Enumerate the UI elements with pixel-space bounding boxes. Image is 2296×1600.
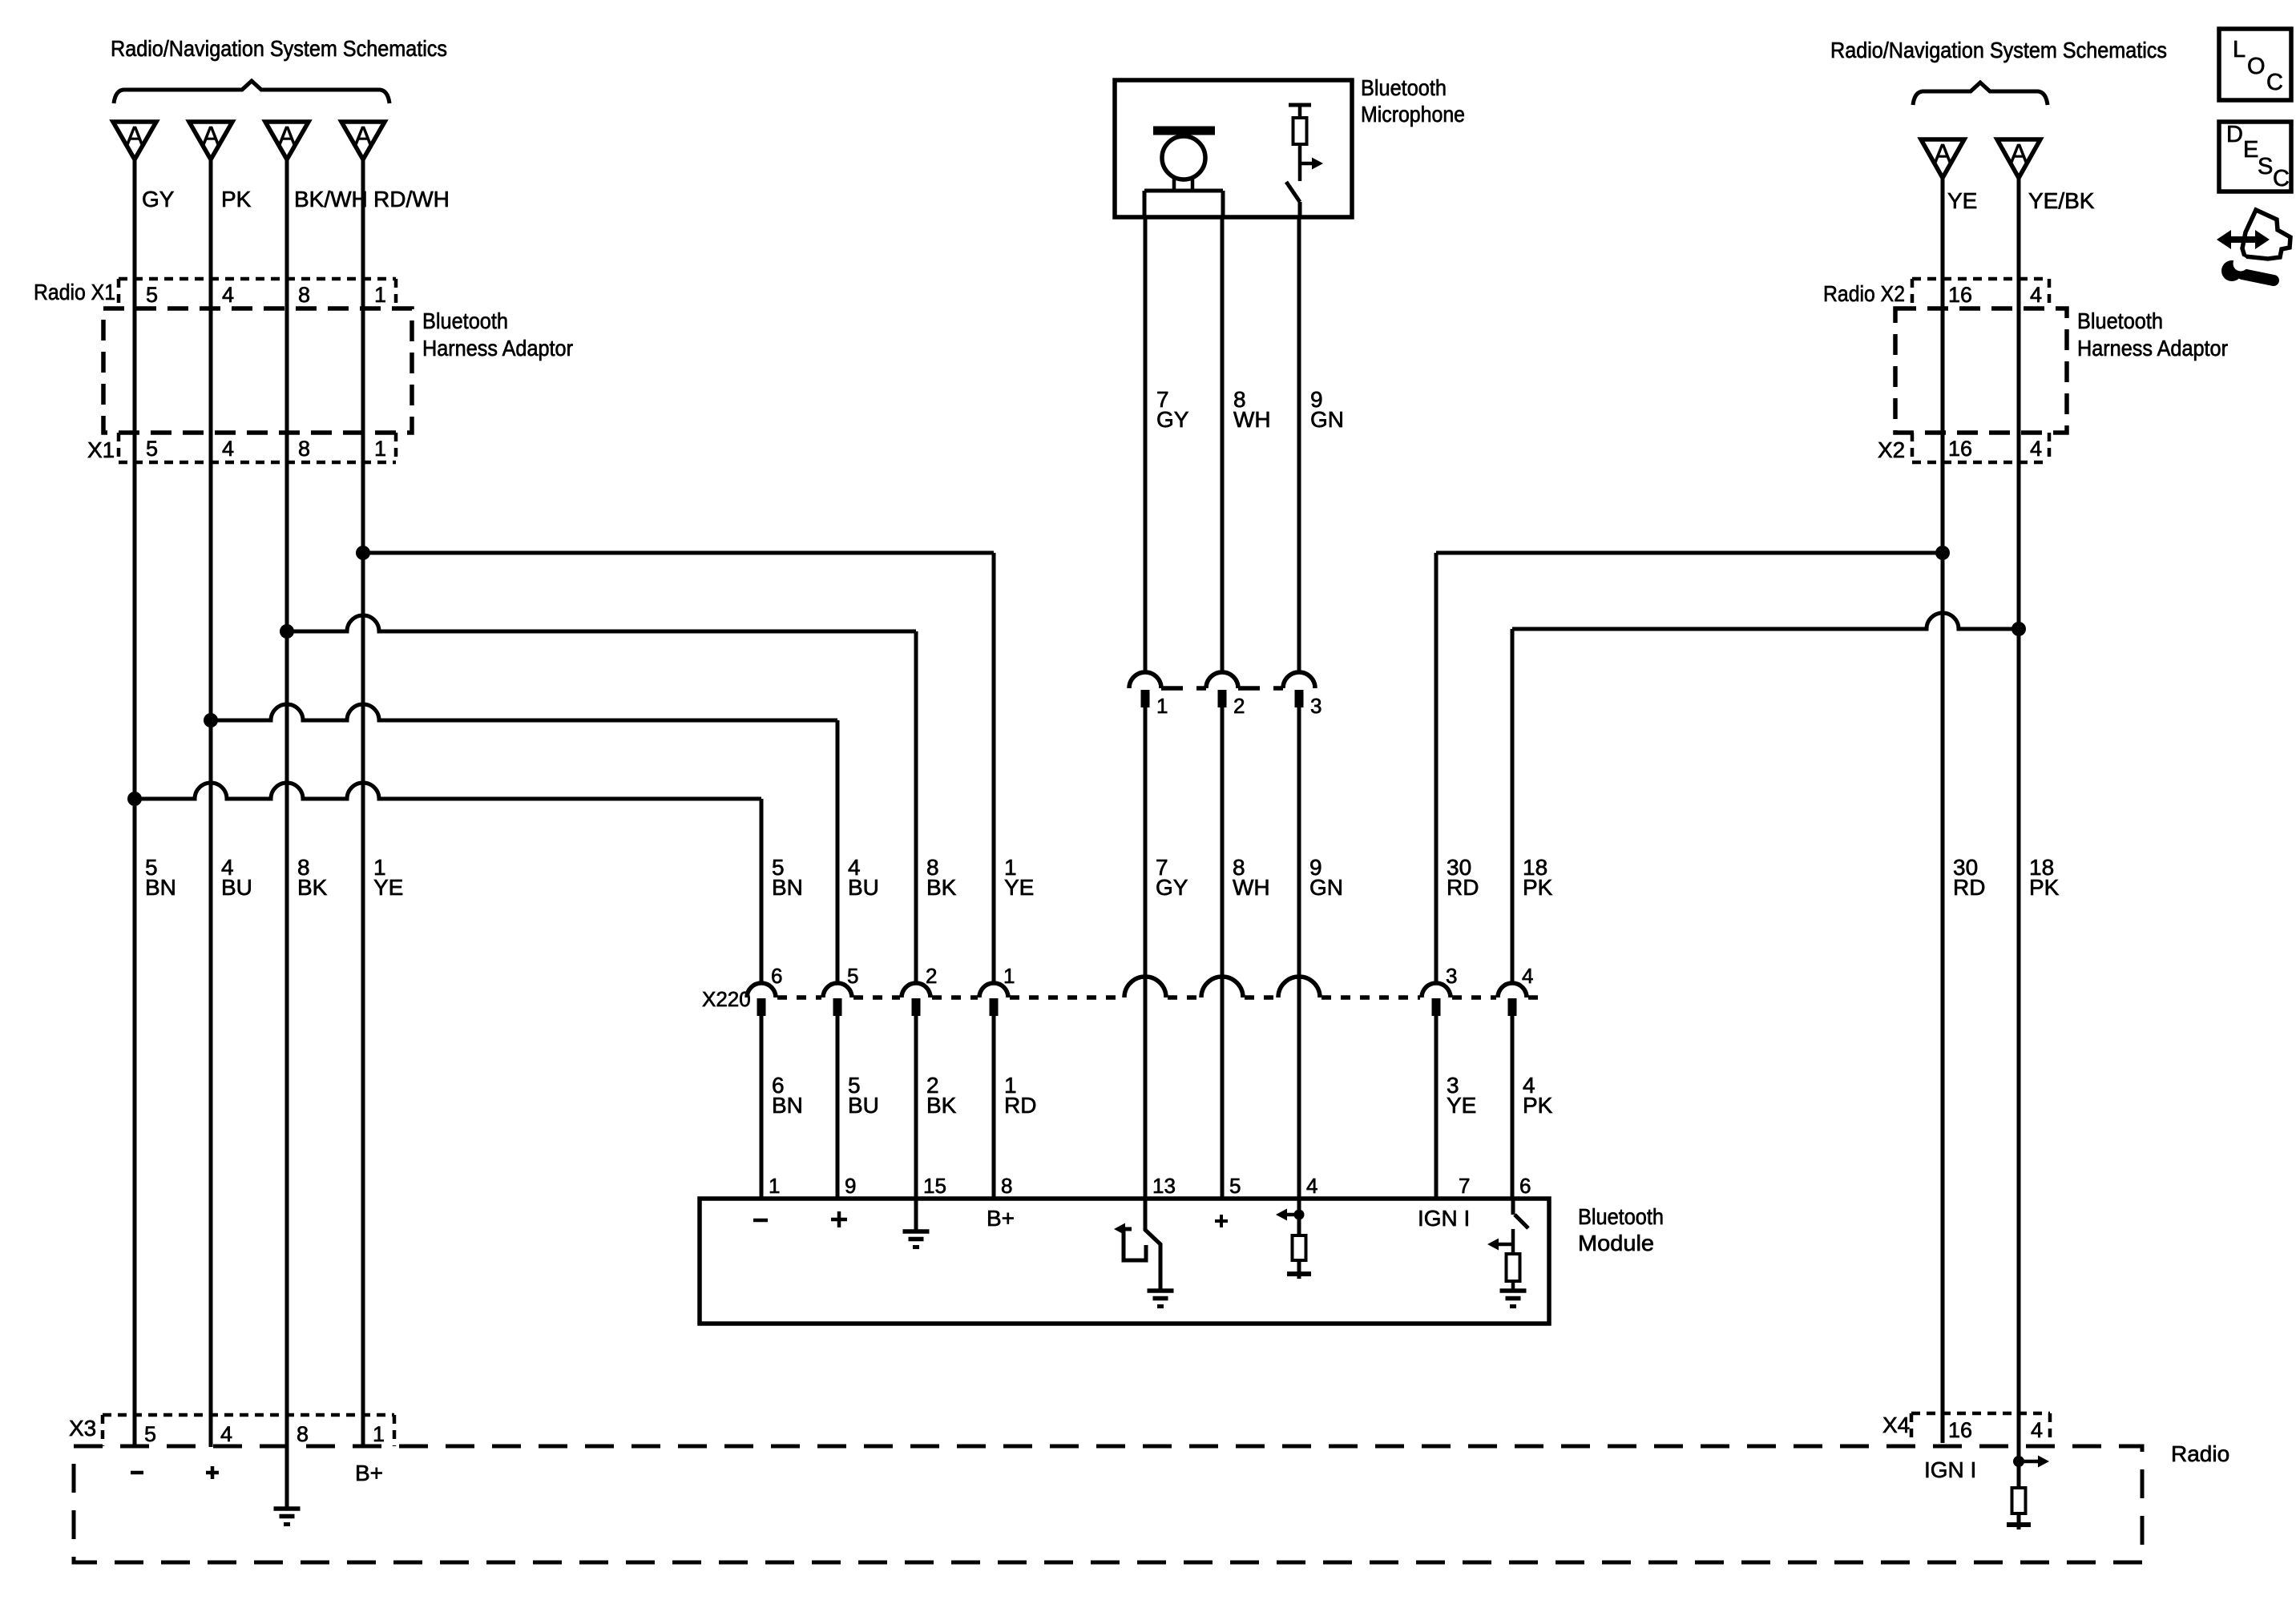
svg-text:1: 1 [374, 283, 386, 307]
svg-text:1: 1 [1156, 694, 1168, 718]
svg-text:BK: BK [297, 875, 328, 900]
svg-text:X220: X220 [702, 987, 751, 1011]
svg-text:5: 5 [847, 964, 858, 988]
svg-text:2: 2 [926, 964, 937, 988]
svg-text:BN: BN [772, 875, 803, 900]
svg-text:3: 3 [1446, 964, 1457, 988]
svg-text:YE: YE [1447, 1093, 1476, 1118]
svg-text:13: 13 [1152, 1174, 1176, 1198]
svg-text:16: 16 [1948, 1418, 1972, 1442]
svg-text:D: D [2226, 122, 2243, 147]
svg-text:BU: BU [848, 875, 879, 900]
svg-text:Module: Module [1578, 1231, 1654, 1255]
svg-text:S: S [2258, 154, 2273, 179]
svg-text:8: 8 [298, 283, 310, 307]
svg-text:5: 5 [146, 283, 158, 307]
svg-text:B+: B+ [987, 1206, 1015, 1231]
svg-text:Bluetooth: Bluetooth [1361, 75, 1447, 100]
svg-text:A: A [2010, 139, 2028, 168]
svg-text:GY: GY [1156, 407, 1189, 432]
svg-text:GN: GN [1310, 407, 1344, 432]
svg-text:X4: X4 [1882, 1413, 1910, 1437]
svg-text:4: 4 [1522, 964, 1533, 988]
svg-text:PK: PK [1523, 1093, 1553, 1118]
svg-text:7: 7 [1459, 1174, 1470, 1198]
svg-text:BK: BK [926, 875, 957, 900]
svg-text:4: 4 [220, 1422, 232, 1446]
svg-text:X1: X1 [87, 437, 115, 462]
svg-text:Bluetooth: Bluetooth [2077, 308, 2163, 333]
svg-text:Harness Adaptor: Harness Adaptor [422, 336, 573, 361]
svg-text:BU: BU [848, 1093, 879, 1118]
svg-text:GN: GN [1309, 875, 1343, 900]
svg-text:BK/WH: BK/WH [294, 187, 368, 212]
svg-text:9: 9 [845, 1174, 856, 1198]
svg-text:YE: YE [1004, 875, 1034, 900]
svg-text:B+: B+ [355, 1461, 383, 1485]
svg-text:Microphone: Microphone [1361, 102, 1465, 127]
svg-text:15: 15 [923, 1174, 946, 1198]
svg-text:16: 16 [1948, 283, 1972, 307]
svg-text:Radio X2: Radio X2 [1823, 281, 1905, 306]
svg-text:Radio/Navigation System Schema: Radio/Navigation System Schematics [111, 36, 447, 61]
svg-text:4: 4 [2031, 1418, 2043, 1442]
svg-text:5: 5 [144, 1422, 156, 1446]
svg-text:IGN I: IGN I [1924, 1457, 1976, 1482]
svg-text:A: A [354, 121, 372, 151]
svg-text:BN: BN [772, 1093, 803, 1118]
svg-text:YE/BK: YE/BK [2028, 188, 2095, 213]
svg-text:GY: GY [142, 187, 175, 212]
svg-text:PK: PK [221, 187, 252, 212]
svg-text:1: 1 [374, 437, 386, 461]
svg-text:PK: PK [1523, 875, 1553, 900]
svg-text:BN: BN [145, 875, 176, 900]
svg-text:RD: RD [1004, 1093, 1036, 1118]
svg-text:A: A [278, 121, 296, 151]
svg-text:1: 1 [373, 1422, 385, 1446]
svg-text:1: 1 [769, 1174, 780, 1198]
svg-text:Bluetooth: Bluetooth [1578, 1204, 1664, 1229]
svg-text:5: 5 [1229, 1174, 1241, 1198]
svg-text:4: 4 [2030, 437, 2042, 461]
svg-text:6: 6 [1519, 1174, 1531, 1198]
svg-text:BU: BU [221, 875, 252, 900]
svg-text:RD: RD [1447, 875, 1479, 900]
svg-text:3: 3 [1310, 694, 1322, 718]
svg-text:GY: GY [1156, 875, 1188, 900]
svg-text:O: O [2247, 54, 2266, 79]
svg-text:IGN I: IGN I [1418, 1206, 1470, 1231]
svg-text:Radio: Radio [2171, 1441, 2229, 1466]
svg-text:1: 1 [1003, 964, 1015, 988]
svg-text:Bluetooth: Bluetooth [422, 308, 508, 333]
svg-text:YE: YE [1947, 188, 1977, 213]
svg-text:L: L [2233, 37, 2246, 62]
svg-text:WH: WH [1233, 407, 1271, 432]
svg-text:RD/WH: RD/WH [373, 187, 450, 212]
svg-text:4: 4 [1306, 1174, 1317, 1198]
svg-text:16: 16 [1948, 437, 1972, 461]
svg-text:X3: X3 [69, 1416, 96, 1441]
svg-text:Radio X1: Radio X1 [34, 280, 115, 304]
svg-text:6: 6 [771, 964, 782, 988]
svg-text:A: A [1934, 139, 1951, 168]
svg-text:4: 4 [222, 283, 234, 307]
svg-text:E: E [2243, 137, 2258, 163]
svg-text:A: A [202, 121, 220, 151]
svg-text:Radio/Navigation System Schema: Radio/Navigation System Schematics [1830, 38, 2167, 62]
svg-text:YE: YE [373, 875, 403, 900]
svg-text:PK: PK [2029, 875, 2060, 900]
svg-text:8: 8 [297, 1422, 309, 1446]
svg-text:WH: WH [1233, 875, 1270, 900]
svg-text:A: A [126, 121, 143, 151]
svg-text:Harness Adaptor: Harness Adaptor [2077, 336, 2228, 361]
svg-text:4: 4 [2030, 283, 2042, 307]
svg-text:8: 8 [298, 437, 310, 461]
svg-text:BK: BK [926, 1093, 957, 1118]
svg-text:C: C [2273, 166, 2290, 191]
svg-text:2: 2 [1233, 694, 1245, 718]
svg-text:5: 5 [146, 437, 158, 461]
svg-text:C: C [2266, 70, 2283, 95]
svg-text:X2: X2 [1878, 437, 1905, 462]
svg-text:RD: RD [1953, 875, 1985, 900]
svg-text:8: 8 [1001, 1174, 1012, 1198]
svg-text:4: 4 [222, 437, 234, 461]
